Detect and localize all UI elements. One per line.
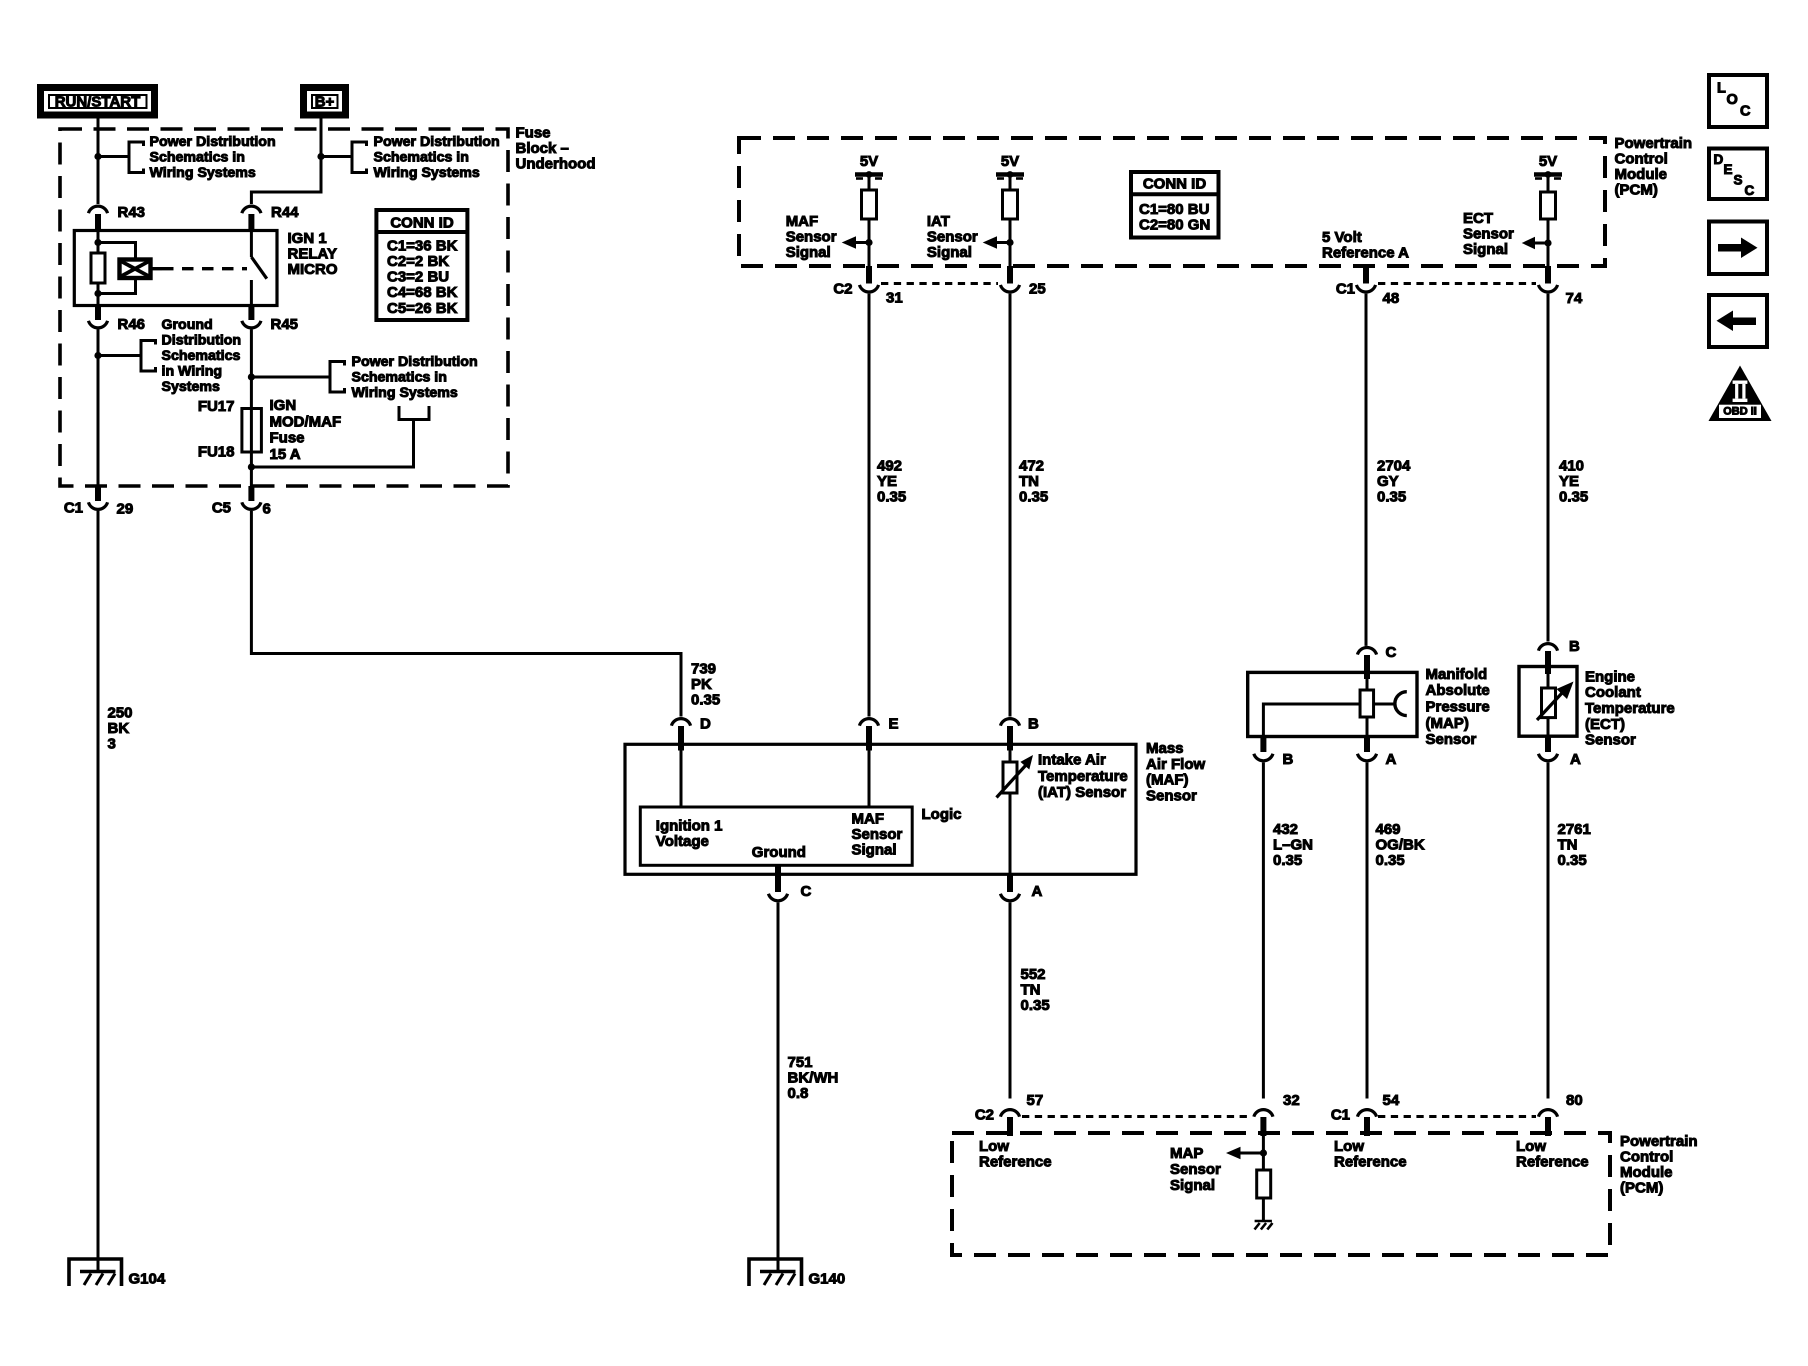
off-page bracket power distribution (fuse)	[330, 362, 345, 393]
wire 5V to resistor (MAF)	[868, 175, 871, 191]
svg-text:C1: C1	[1331, 1106, 1350, 1123]
connector C5 pin 6	[248, 486, 254, 501]
wire relay switch bottom contact	[250, 280, 253, 306]
icon LOC box	[1709, 75, 1767, 127]
wire RUN/START to R43	[97, 119, 100, 205]
svg-text:Ground: Ground	[752, 844, 806, 861]
connector C1 pin 29	[95, 486, 101, 501]
connector pin 32	[1254, 1110, 1273, 1117]
svg-text:D: D	[1714, 152, 1724, 167]
connector ECT pin A	[1545, 736, 1551, 752]
svg-text:R44: R44	[271, 204, 299, 221]
dotted connector link C1 48 to 74	[1378, 282, 1536, 285]
resistor relay suppression	[91, 253, 105, 283]
wire transducer to A	[1366, 717, 1369, 737]
wire coil branch top	[98, 243, 136, 260]
svg-text:A: A	[1386, 751, 1397, 768]
svg-text:S: S	[1734, 172, 1743, 187]
wire 5V to resistor (ECT)	[1547, 175, 1550, 193]
wire resistor to internal ground	[1262, 1198, 1265, 1221]
off-page bracket ground distribution	[141, 341, 156, 372]
off-page bracket power distribution (left)	[129, 142, 144, 173]
svg-text:C1: C1	[1336, 280, 1355, 297]
svg-text:CONN ID: CONN ID	[1143, 175, 1207, 192]
svg-text:C1=36 BKC2=2 BKC3=2 BUC4=68 BK: C1=36 BKC2=2 BKC3=2 BUC4=68 BKC5=26 BK	[387, 237, 458, 316]
svg-text:L: L	[1717, 81, 1726, 97]
junction MAF signal	[865, 239, 872, 246]
wire MAF signal arrow	[855, 241, 869, 244]
connector MAP pin C	[1357, 648, 1376, 655]
table CONN ID (PCM)	[1131, 172, 1219, 238]
svg-text:57: 57	[1027, 1092, 1044, 1109]
IAT thermistor arrow	[997, 765, 1027, 798]
wire C to transducer	[1366, 679, 1369, 690]
svg-text:5V: 5V	[1001, 153, 1019, 170]
dotted connector link 54 to 80	[1378, 1115, 1536, 1118]
connector R43	[88, 206, 107, 213]
connector MAF pin C	[775, 865, 781, 892]
connector MAF pin A	[1007, 874, 1013, 892]
wire 250 BK to G104	[97, 511, 100, 1272]
node B+ power feed box	[304, 88, 346, 116]
connector MAF pin E	[859, 719, 878, 726]
MAF logic box	[640, 807, 912, 865]
svg-text:A: A	[1570, 751, 1581, 768]
wire to power distribution reference	[98, 155, 129, 158]
wire 552 TN MAF A to PCM 57	[1009, 902, 1012, 1098]
wire E to logic	[868, 751, 871, 808]
thermistor ECT	[1542, 688, 1556, 718]
connector C1 pin 54	[1357, 1110, 1376, 1117]
fuse FU17/FU18 IGN MOD/MAF 15A	[242, 409, 262, 453]
wire below resistor	[97, 283, 100, 306]
wire to power distribution reference (B+)	[321, 155, 352, 158]
wire B to thermistor	[1547, 674, 1550, 688]
fuse block underhood dashed boundary	[60, 129, 508, 486]
junction IAT signal	[1006, 239, 1013, 246]
MAP pressure port crescent	[1395, 692, 1407, 716]
svg-text:RUN/START: RUN/START	[55, 93, 141, 110]
svg-text:R46: R46	[118, 316, 146, 333]
resistor IAT pull-up	[1003, 190, 1018, 219]
svg-text:C: C	[801, 883, 812, 900]
svg-text:C: C	[1386, 644, 1397, 661]
svg-text:A: A	[1032, 883, 1043, 900]
wire resistor to PCM edge (ECT)	[1547, 219, 1550, 266]
svg-text:25: 25	[1029, 280, 1046, 297]
icon arrow right box	[1709, 222, 1767, 275]
svg-text:O: O	[1727, 92, 1738, 108]
wire R46 to C1	[97, 330, 100, 487]
wire 751 BK/WH to G140	[777, 902, 780, 1271]
svg-text:E: E	[889, 715, 899, 732]
PCM top dashed boundary	[739, 138, 1605, 266]
wire 739 PK from C5 to MAF D	[251, 511, 681, 717]
wire 492 YE C2-31 to MAF E	[868, 294, 871, 717]
dotted connector link C2 31 to 25	[881, 282, 998, 285]
svg-text:G104: G104	[129, 1270, 166, 1287]
wire 2761 TN ECT A to PCM 80	[1547, 762, 1550, 1098]
wire thermistor to A	[1009, 793, 1012, 874]
ECT thermistor arrow	[1537, 693, 1562, 720]
connector C2 pin 57	[1000, 1110, 1019, 1117]
wire resistor to PCM edge (MAF)	[868, 219, 871, 266]
wire to power distribution reference (fuse)	[251, 376, 330, 379]
wire IAT signal arrow	[996, 241, 1010, 244]
ground G140	[749, 1259, 802, 1286]
svg-text:G140: G140	[809, 1270, 846, 1287]
wire relay left pin	[97, 231, 100, 254]
relay switch blade	[251, 257, 266, 279]
connector MAF pin D	[671, 719, 690, 726]
svg-text:R43: R43	[118, 204, 146, 221]
connector MAF pin B	[1000, 719, 1019, 726]
connector C2 pin 31	[866, 266, 872, 284]
connector R46	[95, 306, 101, 321]
relay K: IGN 1 RELAY MICRO box	[74, 231, 277, 306]
svg-text:R45: R45	[271, 316, 299, 333]
svg-text:CONN ID: CONN ID	[390, 214, 454, 231]
junction ground distribution branch	[94, 352, 101, 359]
svg-text:E: E	[1724, 162, 1733, 177]
svg-text:48: 48	[1383, 290, 1400, 307]
resistor MAF pull-up	[862, 190, 877, 219]
MAP internal wire B leg	[1263, 704, 1360, 737]
resistor ECT pull-up	[1541, 192, 1556, 219]
junction fuse top branch	[248, 373, 255, 380]
svg-text:B: B	[1028, 715, 1039, 732]
svg-text:32: 32	[1283, 1092, 1300, 1109]
junction on RUN/START wire	[94, 153, 101, 160]
svg-text:C: C	[1740, 104, 1751, 120]
svg-text:B+: B+	[315, 93, 335, 110]
connector MAP pin B	[1260, 737, 1266, 753]
svg-text:FU17: FU17	[198, 398, 235, 415]
wire resistor to PCM edge (IAT)	[1009, 219, 1012, 266]
thermistor IAT	[1003, 762, 1017, 793]
svg-text:29: 29	[117, 500, 134, 517]
connector R44	[242, 206, 261, 213]
wire 410 YE 74 to ECT B	[1547, 294, 1550, 642]
wire MAP signal arrow (PCM)	[1240, 1152, 1263, 1155]
table CONN ID (fuse block)	[376, 210, 467, 320]
MAP transducer resistor	[1360, 690, 1374, 717]
icon DESC box	[1709, 149, 1767, 200]
connector MAP pin A	[1364, 737, 1370, 753]
wire 432 L-GN MAP B to PCM 32	[1262, 762, 1265, 1098]
junction MAP signal	[1260, 1149, 1267, 1156]
icon arrow left box	[1709, 295, 1767, 347]
wire from bracket to fuse output	[251, 420, 413, 468]
connector pin 74	[1545, 266, 1551, 284]
wire D to logic	[680, 751, 683, 808]
wire to ground distribution reference	[98, 354, 141, 357]
junction ECT signal	[1544, 239, 1551, 246]
svg-text:B: B	[1569, 638, 1580, 655]
ground G104	[69, 1259, 122, 1286]
connector ECT pin B	[1538, 644, 1557, 651]
MAF sensor box	[625, 744, 1136, 874]
relay actuator dashed link	[151, 267, 163, 270]
svg-text:54: 54	[1383, 1092, 1400, 1109]
svg-text:C1=80 BUC2=80 GN: C1=80 BUC2=80 GN	[1139, 201, 1210, 234]
wire B+ to R44	[251, 119, 321, 205]
svg-text:74: 74	[1566, 290, 1583, 307]
svg-text:OBD II: OBD II	[1723, 405, 1757, 417]
svg-text:B: B	[1283, 751, 1294, 768]
wire B to IAT thermistor	[1009, 751, 1012, 763]
wire relay switch top contact	[250, 231, 253, 258]
svg-text:C5: C5	[212, 499, 231, 516]
svg-text:Logic: Logic	[922, 806, 962, 823]
wire R45 down through fuse	[250, 330, 253, 487]
svg-text:6: 6	[263, 500, 271, 517]
wire transducer to port	[1374, 703, 1396, 706]
resistor MAP signal load	[1257, 1170, 1271, 1198]
wire thermistor to A (ECT)	[1547, 718, 1550, 737]
wire 2704 GY C1-48 to MAP C	[1365, 294, 1368, 646]
connector pin 25	[1007, 266, 1013, 284]
svg-text:C2: C2	[833, 280, 852, 297]
ECT sensor box	[1519, 667, 1577, 737]
svg-text:C2: C2	[975, 1106, 994, 1123]
junction relay coil bottom	[94, 290, 101, 297]
dotted connector link 57 to 32	[1022, 1115, 1252, 1118]
wire 5V to resistor (IAT)	[1009, 175, 1012, 191]
wire coil branch bottom	[98, 278, 136, 294]
connector pin 80	[1538, 1110, 1557, 1117]
svg-text:C: C	[1745, 183, 1755, 198]
svg-text:FU18: FU18	[198, 443, 235, 460]
wire 469 OG/BK MAP A to PCM C1-54	[1366, 762, 1369, 1098]
icon OBD II triangle	[1709, 366, 1772, 422]
wire 472 TN 25 to MAF B	[1009, 294, 1012, 717]
wire MAP signal into PCM	[1262, 1136, 1265, 1170]
off-page bracket power distribution (B+)	[352, 142, 367, 173]
node RUN/START power feed box	[41, 88, 155, 116]
svg-text:5V: 5V	[860, 153, 878, 170]
off-page down bracket under wiring systems text	[399, 406, 429, 420]
svg-text:31: 31	[886, 289, 903, 306]
junction fuse bottom branch	[248, 463, 255, 470]
svg-text:5V: 5V	[1539, 153, 1557, 170]
relay coil (bowtie)	[120, 260, 151, 279]
junction on B+ wire	[317, 153, 324, 160]
MAP sensor box	[1248, 672, 1417, 736]
svg-text:C1: C1	[64, 499, 83, 516]
PCM bottom dashed boundary	[952, 1133, 1610, 1255]
connector R45	[248, 306, 254, 321]
internal ground (PCM)	[1255, 1220, 1272, 1223]
connector C1 pin 48	[1363, 266, 1369, 284]
svg-text:80: 80	[1566, 1092, 1583, 1109]
junction relay coil top	[94, 239, 101, 246]
wire ECT signal arrow	[1534, 242, 1548, 245]
svg-text:D: D	[700, 715, 711, 732]
